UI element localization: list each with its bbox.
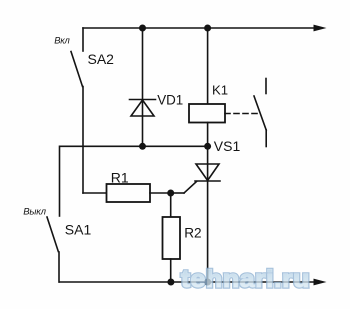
resistor R2 bbox=[163, 193, 181, 282]
svg-text:Выкл: Выкл bbox=[23, 207, 46, 218]
node bottom rail / R2 bbox=[167, 279, 174, 286]
arrow bottom right bbox=[314, 279, 327, 286]
diode VD1 bbox=[130, 28, 156, 146]
wire bottom rail bbox=[59, 281, 314, 283]
svg-text:VD1: VD1 bbox=[157, 92, 183, 107]
node top rail / VD1 bbox=[139, 25, 146, 32]
svg-text:K1: K1 bbox=[212, 83, 228, 98]
watermark tehnari.ru bbox=[181, 266, 310, 293]
svg-text:SA2: SA2 bbox=[88, 51, 115, 67]
svg-text:Вкл: Вкл bbox=[54, 35, 70, 46]
wire VS1 gate to R1/R2 node bbox=[171, 182, 197, 194]
wire SA2 to R1 bbox=[83, 87, 107, 194]
node mid rail / VD1 bbox=[139, 143, 146, 150]
svg-text:tehnari.ru: tehnari.ru bbox=[181, 266, 310, 293]
node bottom rail / VS1 bbox=[204, 279, 211, 286]
svg-text:SA1: SA1 bbox=[65, 222, 92, 238]
switch SA2 bbox=[71, 28, 83, 87]
switch SA1 bbox=[47, 146, 60, 282]
svg-text:R1: R1 bbox=[111, 170, 129, 186]
node mid rail / VS1 bbox=[204, 143, 211, 150]
relay coil K1 bbox=[189, 28, 225, 146]
arrow top right bbox=[314, 25, 327, 32]
resistor R1 bbox=[107, 184, 171, 202]
node top rail / K1 bbox=[204, 25, 211, 32]
dashed mechanical link K1 bbox=[225, 113, 258, 115]
thyristor VS1 bbox=[195, 146, 220, 282]
svg-text:R2: R2 bbox=[184, 226, 201, 241]
wire top rail bbox=[83, 27, 314, 29]
wire mid rail (SA1 to VS1 junction) bbox=[60, 145, 208, 147]
node R1 / R2 / gate bbox=[167, 190, 174, 197]
svg-text:VS1: VS1 bbox=[214, 138, 241, 154]
relay contact K1.1 bbox=[254, 79, 266, 147]
